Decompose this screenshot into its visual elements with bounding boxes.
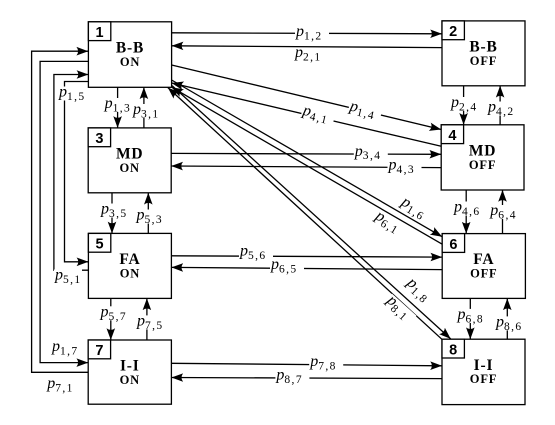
label p5,3 <box>136 207 164 226</box>
label p1,4 <box>347 97 384 124</box>
label p2,4 <box>450 94 478 113</box>
svg-text:5: 5 <box>96 237 104 253</box>
p2,4 arrow (2->4) <box>463 86 465 125</box>
svg-text:ON: ON <box>120 161 140 175</box>
label p4,2 <box>487 99 515 118</box>
label p6,8 <box>457 306 485 325</box>
p2,1 arrow (2->1) <box>172 46 442 48</box>
label p3,1 <box>132 101 160 120</box>
label p6,1 <box>371 207 409 240</box>
svg-text:ON: ON <box>120 266 140 280</box>
p7,5 arrow (7->5) <box>146 298 148 340</box>
svg-text:OFF: OFF <box>470 54 497 68</box>
p1,5 arrow (1->5, routed left) <box>65 82 89 262</box>
p6,1 arrow (6->1) <box>172 87 443 244</box>
label p5,6 <box>239 242 273 261</box>
p3,4 arrow (3->4) <box>171 152 441 155</box>
svg-text:7: 7 <box>95 343 103 359</box>
p5,7 arrow (5->7) <box>110 298 112 340</box>
label p7,8 <box>309 353 343 372</box>
state box 8: I-I OFF <box>442 339 525 404</box>
svg-text:ON: ON <box>120 373 140 387</box>
p3,5 arrow (3->5) <box>111 193 113 234</box>
p1,8 arrow (1->8) <box>172 86 451 339</box>
label p6,5 <box>270 256 304 275</box>
label p1,5 <box>58 84 86 103</box>
p5,6 arrow (5->6) <box>171 256 442 257</box>
p4,2 arrow (4->2) <box>499 86 501 125</box>
label p1,6 <box>396 193 434 226</box>
svg-text:3: 3 <box>95 131 103 147</box>
p6,8 arrow (6->8) <box>469 298 471 339</box>
svg-text:OFF: OFF <box>470 372 497 386</box>
label p7,5 <box>136 313 164 332</box>
svg-text:OFF: OFF <box>470 267 497 281</box>
label p7,1 <box>46 375 74 394</box>
label p6,4 <box>489 202 517 221</box>
label p8,1 <box>381 291 419 327</box>
p7,1 arrow (7->1, routed left) <box>32 51 89 372</box>
label p1,7 <box>51 338 79 357</box>
p6,4 arrow (6->4) <box>502 190 504 234</box>
p5,1 arrow (5->1, routed left) <box>54 75 89 271</box>
p7,8 arrow (7->8) <box>171 363 442 366</box>
label p5,7 <box>100 304 128 323</box>
label p8,7 <box>275 367 309 386</box>
label p8,6 <box>495 314 523 333</box>
state box 1: B-B ON <box>88 22 171 88</box>
svg-text:OFF: OFF <box>469 158 496 172</box>
p1,2 arrow (1->2) <box>172 33 442 34</box>
label p3,4 <box>354 143 388 162</box>
label p5,1 <box>54 267 82 286</box>
svg-text:2: 2 <box>449 24 457 40</box>
p1,3 arrow (1->3) <box>117 87 119 128</box>
svg-text:ON: ON <box>120 55 140 69</box>
p4,1 arrow (4->1) <box>172 83 442 146</box>
p8,1 arrow (8->1) <box>168 88 442 340</box>
svg-text:4: 4 <box>448 128 456 144</box>
p4,6 arrow (4->6) <box>465 190 467 234</box>
p5,3 arrow (5->3) <box>147 193 149 234</box>
state box 4: MD OFF <box>441 125 524 190</box>
label p2,1 <box>294 44 328 63</box>
state box 3: MD ON <box>88 128 171 193</box>
svg-text:1: 1 <box>96 25 104 41</box>
p1,4 arrow (1->4) <box>172 65 442 130</box>
state box 2: B-B OFF <box>442 21 525 86</box>
p4,3 arrow (4->3) <box>171 166 441 168</box>
label p4,1 <box>300 102 337 129</box>
label p3,5 <box>100 201 128 220</box>
p8,6 arrow (8->6) <box>506 298 508 339</box>
label p4,3 <box>388 157 422 176</box>
p8,7 arrow (8->7) <box>171 378 442 379</box>
p1,6 arrow (1->6) <box>172 80 443 237</box>
svg-text:8: 8 <box>449 342 457 358</box>
svg-text:6: 6 <box>449 237 457 253</box>
p3,1 arrow (3->1) <box>143 87 145 128</box>
state box 5: FA ON <box>88 233 171 298</box>
p1,7 arrow (1->7, routed left) <box>40 61 88 362</box>
label p4,6 <box>453 199 481 218</box>
label p1,3 <box>104 95 132 114</box>
label p1,2 <box>295 23 329 42</box>
label p1,8 <box>401 274 439 310</box>
p6,5 arrow (6->5) <box>171 267 442 269</box>
state box 7: I-I ON <box>88 340 171 404</box>
state box 6: FA OFF <box>442 234 525 299</box>
